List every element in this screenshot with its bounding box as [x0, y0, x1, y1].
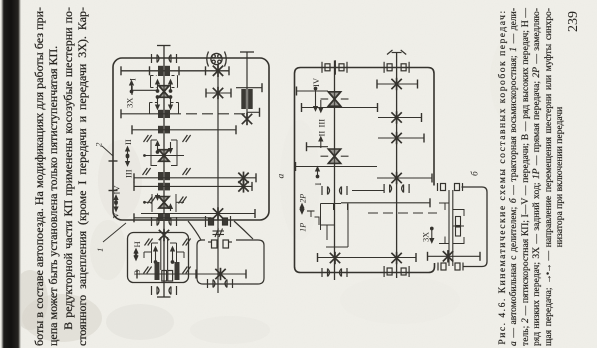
- shift arrows between II III: [126, 147, 130, 157]
- housing: divider (1) of diagram a: [128, 233, 189, 283]
- mesh line row III: [134, 177, 256, 179]
- divider gear tall left: [155, 262, 160, 280]
- hatch marks synchro2 left bottom: [143, 168, 151, 175]
- dashed line b: [368, 212, 437, 214]
- mesh line dashed to stub shaft: [121, 113, 168, 115]
- shift arrows between IV V: [114, 196, 118, 204]
- universal joint symbol: [207, 52, 227, 67]
- housing: right box of diagram b: [462, 187, 488, 267]
- hatch synchro3 right: [179, 197, 187, 204]
- bearing star between housings: [159, 229, 169, 241]
- fork bracket II-III: [150, 140, 152, 166]
- shaft: input shaft of diagram b: [396, 53, 398, 279]
- dashed fork bracket upper: [151, 75, 157, 77]
- dashed fork bracket lower right: [171, 102, 179, 104]
- flange bottom right box: [438, 263, 463, 271]
- hatch divider lt: [145, 239, 153, 246]
- synchro X first: [159, 86, 169, 98]
- housing: lower right box of diagram a: [197, 240, 264, 284]
- shaft: input/main shaft of diagram a: [163, 46, 165, 298]
- input shaft tip chevrons: [387, 50, 406, 55]
- star b input 4: [391, 172, 401, 184]
- svg-text:2Р: 2Р: [299, 194, 308, 203]
- mesh bar stub bottom: [247, 111, 260, 113]
- flange bottom main shaft b: [322, 268, 347, 277]
- coupling flange squares aux shaft: [206, 216, 231, 227]
- svg-text:а: а: [277, 174, 287, 179]
- divider sleeve lines: [160, 237, 162, 270]
- mesh line aux mid: [141, 213, 255, 215]
- book gutter black band: [1, 0, 21, 348]
- side bars X b1: [321, 98, 329, 100]
- svg-text:1: 1: [95, 248, 105, 252]
- coupling flange lower aux shaft: [208, 279, 233, 288]
- arrow II up: [319, 137, 323, 148]
- dashed fork bracket upper right: [172, 75, 178, 77]
- divider fork right: [176, 243, 178, 263]
- long mesh line through divider: [137, 273, 246, 275]
- svg-text:I: I: [128, 78, 138, 81]
- shift arrows up pair: [156, 80, 160, 92]
- svg-text:3Х: 3Х: [125, 97, 135, 108]
- mesh line at X2 with dot: [144, 155, 184, 157]
- shaft: right auxiliary shaft of diagram a: [217, 64, 219, 293]
- flange on top edge main shaft b: [322, 62, 347, 73]
- shaft pair in right box: [448, 190, 450, 266]
- mesh line b1: [297, 90, 329, 92]
- gear pair row IV upper: [158, 183, 163, 191]
- mesh bar stub top: [236, 87, 262, 89]
- mesh line row II: [132, 129, 236, 131]
- star b input 1: [391, 78, 401, 90]
- mesh line row V: [134, 217, 211, 219]
- star b input 3: [391, 132, 401, 144]
- dashed fork bracket lower: [150, 102, 158, 104]
- funnel wall right connecting main housing to lower box: [234, 221, 253, 239]
- arrow IV b: [314, 87, 318, 110]
- mesh line row IVu: [134, 185, 252, 187]
- rotated body paragraph text: [32, 7, 89, 346]
- mesh line to X1: [132, 89, 158, 91]
- svg-text:V: V: [111, 212, 121, 219]
- rotated caption text: [497, 8, 565, 346]
- hatch marks synchro2 left top: [144, 135, 152, 142]
- hatch marks synchro2 right bottom: [183, 168, 191, 175]
- hatch marks synchro2 right top: [183, 135, 191, 142]
- coupling flange bottom edge main shaft: [152, 217, 177, 226]
- svg-text:Н: Н: [132, 241, 142, 247]
- coupling flange below divider: [152, 286, 177, 295]
- star input shaft b bottom: [391, 252, 401, 264]
- fork bracket V-IV: [151, 194, 153, 212]
- synchro X b1: [328, 92, 340, 106]
- mid wall line b: [352, 190, 384, 192]
- floating star row III: [238, 172, 248, 184]
- svg-text:II: II: [317, 131, 327, 137]
- star main shaft b bottom: [330, 252, 340, 264]
- synchro X second: [159, 150, 169, 162]
- arrows at synchro3: [156, 194, 160, 200]
- svg-text:II: II: [123, 139, 133, 145]
- line to right box: [341, 202, 430, 204]
- arrow III down: [319, 100, 323, 112]
- gear pair row II: [158, 126, 163, 134]
- right box gear structure: [439, 202, 449, 204]
- arrow 3X b: [430, 227, 434, 242]
- long line b bottom: [318, 257, 417, 259]
- floating star row IVu: [238, 180, 248, 192]
- mesh line gear 1st row: [121, 70, 229, 72]
- fork bracket II-III lower: [151, 165, 157, 167]
- star b input 2: [391, 111, 401, 123]
- synchro X third: [159, 197, 169, 209]
- svg-text:1Р: 1Р: [299, 223, 308, 232]
- svg-text:б: б: [470, 170, 481, 176]
- arrows at synchro2: [156, 142, 160, 154]
- short mesh bar right: [206, 92, 231, 94]
- shift arrows V-N: [134, 249, 138, 257]
- tick marks on left wall of housing a: [109, 160, 118, 162]
- bearing star aux row2: [213, 87, 223, 99]
- flange mid main shaft b: [322, 186, 347, 195]
- bearing star stub end: [242, 113, 252, 125]
- arrow I up: [316, 167, 320, 178]
- gear pair row 3X: [158, 110, 163, 118]
- shift arrows down pair: [156, 96, 160, 109]
- housing: main housing of diagram b: [301, 68, 435, 186]
- synchro X b2: [328, 149, 340, 163]
- shaft: main shaft of diagram b: [334, 61, 336, 281]
- flange mid input shaft b: [384, 184, 409, 193]
- svg-text:III: III: [317, 119, 327, 128]
- svg-text:3Х: 3Х: [422, 232, 431, 242]
- spline hash symbol: [213, 229, 225, 238]
- star right box: [443, 250, 453, 262]
- hatch divider rt: [183, 239, 191, 246]
- gear pair tall on stub shaft: [241, 89, 246, 109]
- hatch synchro3 left: [148, 197, 156, 204]
- svg-text:IV: IV: [112, 185, 122, 195]
- bearing star aux mid: [213, 207, 223, 219]
- flange bottom input shaft b: [384, 266, 409, 277]
- mesh line b4: [296, 166, 378, 168]
- housing: main gearbox (2) of diagram a: [113, 58, 269, 220]
- hatch divider rb: [183, 267, 191, 274]
- shift arrow between 3X and I: [130, 81, 134, 93]
- page number 239: [566, 4, 582, 32]
- divider gear tall right: [175, 262, 180, 280]
- hollow square pair on aux shaft: [208, 240, 232, 248]
- divider gear hollow pair: [162, 271, 173, 282]
- side bars X b2: [321, 155, 329, 157]
- bearing star lower aux: [215, 268, 225, 280]
- mesh line b2: [302, 107, 378, 109]
- divider fork left: [151, 243, 153, 263]
- svg-text:I: I: [313, 183, 323, 186]
- funnel wall left connecting main housing to lower box: [188, 221, 201, 240]
- arrows 1P-2P: [300, 204, 304, 210]
- svg-text:III: III: [124, 169, 134, 178]
- gear pair row V: [158, 214, 163, 221]
- flange on top edge input shaft b: [384, 62, 409, 73]
- shaft: upper right stub shaft of diagram a: [246, 52, 248, 119]
- side bars X3: [145, 201, 153, 203]
- coupling flange on top edge at main shaft: [152, 54, 177, 63]
- mesh line b3: [307, 146, 329, 148]
- flange to right box top: [438, 183, 463, 191]
- bearing star on aux shaft row1: [213, 65, 223, 77]
- gear pair row III: [158, 172, 163, 180]
- hatch divider lb: [144, 267, 152, 274]
- gear pair on main shaft row1: [158, 66, 163, 76]
- fork structure 1P2P: [307, 210, 315, 212]
- divider shift arrows: [154, 247, 158, 263]
- svg-text:IV: IV: [311, 77, 321, 87]
